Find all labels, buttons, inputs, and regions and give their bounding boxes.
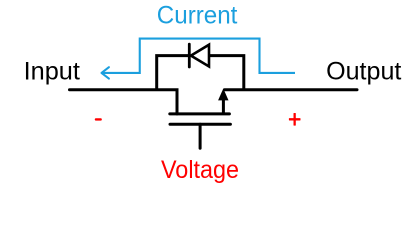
wire: gate lead down to Voltage: [199, 124, 202, 148]
diode D1 cathode bar: [188, 44, 191, 67]
transistor Q1 body arrow shaft: [222, 100, 225, 114]
wire: current path (cyan) from output over diode to input: [102, 39, 296, 73]
current arrow head (open, points left at Input): [102, 67, 109, 78]
wire: main rail left (input side) with drain drop: [70, 90, 178, 114]
svg-text:Current: Current: [157, 2, 238, 29]
polarity plus (red): [289, 118, 301, 120]
wire: body-diode branch top wire right + right leg: [209, 56, 244, 90]
transistor Q1 body arrow head (points up to rail): [218, 89, 228, 101]
polarity minus (red): [95, 118, 102, 120]
diode D1 triangle (anode, pointing left): [191, 45, 209, 67]
transistor Q1 channel bar (source/drain bar): [170, 112, 230, 115]
transistor Q1 gate plate: [170, 123, 230, 126]
wire: main rail right (output side): [225, 88, 358, 91]
svg-text:Output: Output: [326, 59, 401, 86]
svg-text:Input: Input: [24, 59, 80, 86]
svg-text:Voltage: Voltage: [161, 156, 239, 184]
wire: body-diode branch left leg + top wire left: [157, 56, 188, 90]
